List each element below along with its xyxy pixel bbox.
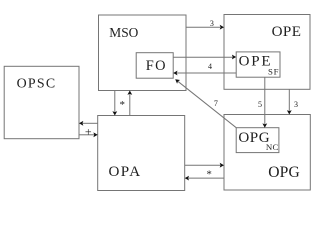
arrowhead into OPE_SF — [232, 55, 236, 60]
svg-text:OPE: OPE — [239, 54, 271, 70]
wire OPE_SF to OPG_NC (label 5) — [264, 77, 266, 124]
wire FO to OPE_SF — [173, 56, 232, 58]
arrowhead into OPSC — [79, 121, 83, 126]
svg-text:*: * — [206, 169, 212, 181]
wire OPG to OPA (label *) — [188, 177, 224, 179]
svg-text:SF: SF — [268, 66, 279, 76]
svg-text:OPE: OPE — [272, 24, 301, 40]
svg-text:4: 4 — [208, 62, 212, 71]
arrowhead into OPE — [220, 25, 224, 30]
wire OPE to OPG (label 3) — [288, 89, 290, 111]
svg-text:+: + — [85, 125, 92, 139]
arrowhead into MSO bottom — [127, 91, 132, 95]
svg-text:OPG: OPG — [268, 164, 300, 181]
wire OPA to OPSC (left) — [83, 122, 98, 124]
arrowhead into OPG_NC (label 5) — [262, 123, 267, 127]
wire OPE_SF to FO (label 4) — [177, 72, 236, 74]
block OPA — [98, 116, 185, 191]
wire OPA to MSO (up) — [129, 94, 131, 115]
block MSO — [99, 15, 187, 91]
arrowhead into OPG left — [220, 163, 224, 168]
block OPE — [224, 15, 310, 90]
svg-text:5: 5 — [258, 100, 262, 109]
svg-text:MSO: MSO — [109, 25, 138, 40]
wire MSO to OPA (down) — [114, 91, 116, 112]
arrowhead into FO (label 4) — [173, 71, 177, 76]
svg-text:NC: NC — [266, 142, 279, 152]
svg-text:*: * — [119, 99, 125, 111]
block OPE_SF — [236, 52, 280, 77]
svg-text:FO: FO — [146, 58, 166, 74]
svg-text:3: 3 — [294, 100, 298, 109]
svg-text:7: 7 — [214, 99, 218, 108]
arrowhead into OPA right — [185, 176, 189, 181]
arrowhead into OPG top (label 3) — [287, 110, 292, 114]
wire OPSC to OPA (label +) — [79, 134, 94, 136]
svg-text:3: 3 — [210, 19, 214, 28]
svg-text:OPA: OPA — [109, 164, 141, 180]
block OPG — [224, 115, 310, 191]
arrowhead into FO corner (label 7) — [175, 79, 180, 84]
arrowhead into OPA left — [93, 132, 97, 137]
wire MSO to OPE (label 3) — [186, 26, 220, 28]
block OPG_NC — [236, 128, 279, 153]
wire OPG_NC to FO diagonal (label 7) — [177, 81, 236, 128]
wire OPA to OPG (right) — [185, 164, 221, 166]
arrowhead into OPA top — [112, 111, 117, 115]
block OPSC — [4, 66, 79, 138]
block FO — [136, 53, 173, 78]
